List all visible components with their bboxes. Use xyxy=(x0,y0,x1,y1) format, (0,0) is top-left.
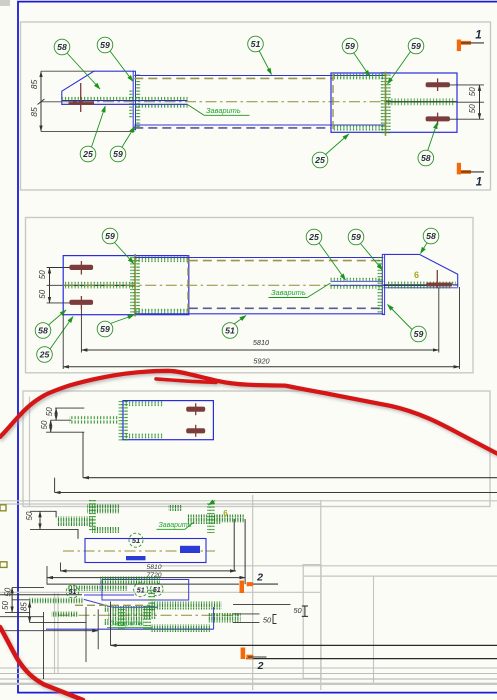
svg-text:51: 51 xyxy=(153,587,161,594)
bolt cross maroon xyxy=(80,83,82,112)
long dim line 2 xyxy=(55,492,497,494)
blue bottom edge xyxy=(46,628,214,630)
svg-text:58: 58 xyxy=(57,42,67,52)
short vertical between xyxy=(54,478,56,493)
weld row f xyxy=(150,625,210,633)
red stroke overlap tail xyxy=(156,379,216,383)
dim line 631 xyxy=(4,630,98,632)
extension line top xyxy=(41,70,95,72)
section marker 2 top xyxy=(240,572,279,594)
svg-text:50: 50 xyxy=(1,601,10,610)
centerline xyxy=(62,101,457,103)
right dim vertical xyxy=(479,85,481,119)
svg-text:59: 59 xyxy=(345,41,355,51)
left edge olive glyph a xyxy=(0,505,6,511)
bolt 1 xyxy=(426,82,450,87)
weld band box bottom xyxy=(135,309,188,315)
svg-text:25: 25 xyxy=(314,155,325,165)
svg-text:59: 59 xyxy=(100,40,110,50)
beam hidden line top xyxy=(189,260,384,262)
svg-text:85: 85 xyxy=(20,602,29,611)
web splice weld lines xyxy=(62,100,188,102)
weld hatch left of vertical xyxy=(381,72,385,135)
balloon 25 right xyxy=(312,134,349,168)
weld band box top xyxy=(332,74,385,80)
balloon 59 bottom xyxy=(110,127,135,162)
balloon 59 xyxy=(97,37,133,81)
svg-text:6: 6 xyxy=(223,509,228,518)
weld label underline xyxy=(269,297,308,299)
extension line bottom xyxy=(41,130,135,132)
balloon 59 bottom left xyxy=(97,315,134,337)
svg-text:51: 51 xyxy=(132,536,140,545)
weld seam lines xyxy=(331,280,384,282)
frame drawing3 xyxy=(23,391,490,507)
dim vertical xyxy=(39,511,41,529)
dim 5810 extension right xyxy=(438,288,440,353)
outline step vertical b xyxy=(77,529,79,538)
section line 2-2 xyxy=(47,583,239,585)
weld seam dashes lower xyxy=(69,420,118,423)
svg-text:59: 59 xyxy=(105,231,115,241)
right dim extension top xyxy=(450,84,484,86)
long dim line 1 xyxy=(83,477,497,479)
weld hatch below web xyxy=(134,105,188,108)
dim vertical 50 upper xyxy=(55,408,57,420)
svg-text:59: 59 xyxy=(351,232,361,242)
frame gray mid xyxy=(0,591,321,593)
gusset plate sloped top xyxy=(62,71,135,105)
weld hatch column inside xyxy=(124,400,128,441)
dim 5920 line xyxy=(63,366,459,368)
hidden blue rect xyxy=(102,580,189,601)
section marker 1 bottom xyxy=(457,163,484,189)
weld label leader xyxy=(308,283,331,297)
frame bottom horizontal b xyxy=(0,503,321,505)
end box rect xyxy=(331,73,457,132)
dim extension mid xyxy=(51,419,71,421)
right dim extension bottom xyxy=(450,118,484,120)
weld label underline xyxy=(107,627,152,629)
extension line mid xyxy=(41,101,62,103)
weld row d xyxy=(150,602,222,610)
weld label leader xyxy=(185,522,194,529)
dim A line 5810 xyxy=(61,570,237,572)
bottom line stack xyxy=(0,667,497,669)
weld hatch left of vertical xyxy=(130,255,134,315)
end plate double edge xyxy=(133,71,135,130)
svg-text:25: 25 xyxy=(308,232,319,242)
bolt cross maroon xyxy=(436,270,438,288)
bolt 2 xyxy=(186,428,205,433)
weld row a xyxy=(67,586,128,591)
balloon 51 dashed b xyxy=(134,583,148,597)
hidden beam end in box xyxy=(332,73,334,132)
svg-text:51: 51 xyxy=(69,589,77,596)
dim 5810 extension left xyxy=(80,310,82,353)
svg-text:25: 25 xyxy=(39,350,50,360)
left dim extension top xyxy=(47,267,70,269)
weld column b xyxy=(89,499,96,532)
svg-text:25: 25 xyxy=(82,149,93,159)
balloon 25 top xyxy=(306,229,345,280)
weld cluster b xyxy=(87,505,120,514)
svg-text:50: 50 xyxy=(38,270,47,279)
weld label underline xyxy=(157,528,186,530)
balloon 51 dashed xyxy=(129,533,143,547)
red freehand oval bottom-left arc xyxy=(0,627,83,700)
weld hatch column outside xyxy=(119,400,123,441)
weld hatch left of plate edge xyxy=(378,256,382,313)
svg-text:50: 50 xyxy=(25,511,34,520)
weld hatch on bolt line xyxy=(388,99,454,102)
svg-text:5920: 5920 xyxy=(253,357,269,366)
balloon 59 mid xyxy=(342,38,370,76)
weld on rect top edge xyxy=(100,577,160,585)
weld hatch right of vertical xyxy=(136,255,140,315)
svg-text:51: 51 xyxy=(137,588,145,595)
weld seam dashes upper xyxy=(69,416,118,419)
weld band box bottom xyxy=(332,125,385,131)
hidden blue line top xyxy=(84,594,134,596)
balloon 58 top right xyxy=(421,228,439,253)
svg-text:59: 59 xyxy=(414,329,424,339)
centerline xyxy=(63,284,458,286)
weld row c xyxy=(51,611,78,617)
inner blue bar a xyxy=(126,556,146,560)
section marker 1 top xyxy=(457,30,484,52)
balloon 51 dashed c xyxy=(151,583,164,596)
svg-text:51: 51 xyxy=(225,326,235,336)
dim 5810 line xyxy=(81,349,438,351)
svg-text:2: 2 xyxy=(257,660,264,672)
svg-text:Заварить: Заварить xyxy=(271,288,306,297)
left dim extension mid xyxy=(47,284,64,286)
balloon 59 bottom right xyxy=(388,305,427,342)
dim extension top xyxy=(55,407,84,409)
right plate double edge xyxy=(382,254,384,314)
dim 5920 extension left xyxy=(62,315,64,369)
balloon 59 right xyxy=(388,38,424,84)
svg-text:58: 58 xyxy=(426,231,436,241)
svg-text:6: 6 xyxy=(414,270,419,280)
svg-text:59: 59 xyxy=(100,324,110,334)
svg-text:58: 58 xyxy=(421,153,431,163)
dim extension bottom xyxy=(30,528,79,530)
dim vertical 50 lower xyxy=(50,420,52,432)
long line 645 xyxy=(111,644,497,646)
weld hatch above seam xyxy=(331,278,384,281)
corner gray blob xyxy=(0,0,10,6)
svg-text:50: 50 xyxy=(38,289,47,298)
plate weld vertical xyxy=(134,254,136,317)
svg-text:59: 59 xyxy=(411,41,421,51)
bolt bar maroon xyxy=(426,283,452,287)
end box rect plan xyxy=(123,401,213,440)
plan box rect xyxy=(85,539,206,563)
frame drawing2 xyxy=(26,218,474,373)
bolt 2 xyxy=(69,300,93,305)
weld hatch left of end plate xyxy=(129,90,133,118)
weld blob xyxy=(104,606,155,612)
beam bottom edge xyxy=(135,313,383,315)
weld cluster c xyxy=(92,527,120,533)
balloon 59 top left xyxy=(102,228,134,263)
dim B extension left xyxy=(46,566,48,585)
left dim vertical a xyxy=(11,587,13,612)
bolt 1 xyxy=(69,265,93,270)
weld hatch on left bolt line xyxy=(65,282,133,285)
svg-text:85: 85 xyxy=(29,80,39,90)
svg-text:85: 85 xyxy=(29,107,39,117)
centerline xyxy=(63,550,215,552)
balloon 58 right xyxy=(418,123,437,166)
dim extension top xyxy=(30,510,57,512)
weld label leader xyxy=(188,105,205,116)
bolt line xyxy=(383,284,452,286)
svg-text:50: 50 xyxy=(468,87,477,96)
sloped plate outline xyxy=(385,254,458,287)
balloon 51 bottom xyxy=(222,316,246,339)
bolt line left xyxy=(64,284,135,286)
left dim extension bottom xyxy=(47,302,70,304)
weld label underline xyxy=(204,114,250,116)
outline step vertical a xyxy=(55,511,57,517)
weld hatch below seam xyxy=(331,286,384,289)
beam end vertical a xyxy=(233,519,235,571)
outline black top xyxy=(0,594,82,596)
inner blue bar b xyxy=(180,546,200,553)
blue line mid xyxy=(113,606,159,608)
weld band top xyxy=(124,401,164,406)
balloon 58 xyxy=(54,39,100,89)
section marker 2 bottom xyxy=(241,648,267,672)
callout lines right xyxy=(233,604,291,606)
weld band bottom xyxy=(124,434,164,439)
weld cluster right b xyxy=(214,515,245,523)
svg-text:1: 1 xyxy=(475,30,481,42)
weld band box top xyxy=(135,257,188,263)
red freehand oval top arc xyxy=(0,371,497,454)
beam end vertical b xyxy=(244,519,246,584)
beam hidden line bottom xyxy=(189,307,384,309)
bolt bar maroon xyxy=(69,101,95,105)
svg-text:50: 50 xyxy=(293,606,302,615)
frame bottom horizontal a xyxy=(0,500,497,502)
blue slope xyxy=(84,599,113,607)
frame bottom vertical b xyxy=(320,500,322,690)
dim extension bottom xyxy=(46,431,84,433)
weld cluster a xyxy=(57,517,95,527)
weld row b xyxy=(29,598,84,604)
weld hatch right of vertical xyxy=(386,72,390,135)
weld hatch right of end plate xyxy=(136,74,140,128)
olive dashed xyxy=(75,604,150,606)
frame drawing3 inner edge xyxy=(29,397,31,507)
svg-text:2: 2 xyxy=(256,572,263,584)
dim A extension left xyxy=(60,563,62,572)
balloon 59 top mid xyxy=(348,229,382,270)
beam bottom edge xyxy=(134,124,385,126)
dimension 85/85 vertical line xyxy=(40,71,42,131)
balloon 58 left xyxy=(35,310,66,338)
frame right inner vertical xyxy=(373,576,375,684)
left edge olive glyph b xyxy=(0,562,7,568)
left dim vertical xyxy=(49,268,51,303)
dim B line 7720 xyxy=(47,577,246,579)
dimension tick mid xyxy=(38,99,45,105)
frame bottom vertical a xyxy=(252,495,254,690)
beam hidden line bottom xyxy=(134,127,331,129)
svg-text:1: 1 xyxy=(476,177,482,189)
bolt 2 xyxy=(426,116,450,121)
hidden beam end in box xyxy=(187,256,189,315)
svg-text:58: 58 xyxy=(38,326,48,336)
frame right horizontals xyxy=(160,565,497,567)
balloon 51 xyxy=(248,36,272,74)
plate weld vertical xyxy=(385,72,387,136)
right dim extension mid xyxy=(457,101,484,103)
balloon 51 dashed a xyxy=(66,585,79,598)
svg-text:50: 50 xyxy=(45,407,54,416)
frame small verticals left xyxy=(54,592,56,674)
svg-text:Заварить: Заварить xyxy=(110,620,143,627)
plate web lines xyxy=(383,284,458,286)
svg-text:59: 59 xyxy=(113,149,123,159)
weld hatch on bolt line xyxy=(386,282,456,285)
frame drawing1 xyxy=(21,22,491,190)
end box rect xyxy=(63,256,189,315)
bolt 1 xyxy=(186,407,205,412)
left dim vertical b xyxy=(29,602,31,623)
long line 658 xyxy=(246,658,497,660)
weld hatch above web xyxy=(62,97,188,101)
blue end vertical xyxy=(213,607,215,629)
olive centerline xyxy=(58,614,240,616)
black verticals xyxy=(85,607,87,662)
dim 5920 extension right xyxy=(459,287,461,369)
balloon 25 left xyxy=(80,106,105,162)
svg-text:51: 51 xyxy=(251,39,261,49)
weld column right xyxy=(207,502,215,534)
weld column a xyxy=(148,590,155,613)
balloon 25 left xyxy=(37,317,73,363)
bolt line center xyxy=(386,101,457,103)
svg-text:50: 50 xyxy=(468,104,477,113)
svg-text:5810: 5810 xyxy=(253,338,269,347)
frame narrow right rect xyxy=(303,565,321,679)
beam hidden line top xyxy=(134,77,333,79)
long extension vertical xyxy=(82,432,84,478)
svg-text:Заварить: Заварить xyxy=(206,106,241,115)
svg-text:50: 50 xyxy=(40,420,49,429)
vertical 43 xyxy=(43,612,45,679)
left dim ext lines xyxy=(12,586,44,588)
weld row e xyxy=(208,613,241,623)
weld cluster right a xyxy=(188,515,221,525)
svg-text:50: 50 xyxy=(263,616,272,625)
svg-text:5810: 5810 xyxy=(146,564,161,571)
beam top edge xyxy=(134,75,385,77)
beam top edge xyxy=(135,257,383,259)
